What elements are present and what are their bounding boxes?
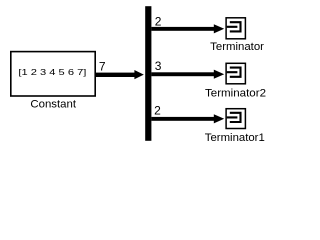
svg-text:Constant: Constant [30,99,76,111]
terminator T1 icon [227,22,241,31]
arrowhead bottom [214,114,224,123]
svg-text:3: 3 [155,59,162,73]
arrowhead into Demux [134,70,143,79]
svg-text:7: 7 [99,60,106,74]
terminator T3 icon [227,113,241,122]
terminator T2 icon [227,68,241,77]
terminator T2 box [226,63,245,84]
svg-text:Terminator: Terminator [210,41,264,53]
svg-text:Terminator1: Terminator1 [205,132,265,144]
terminator block T1 box [226,18,245,39]
wire to Terminator (top) [151,27,214,31]
terminator T3 box [226,109,245,129]
wire to Terminator1 (bottom) [151,117,214,121]
svg-text:2: 2 [154,104,161,118]
demux bar [145,6,151,141]
svg-text:2: 2 [155,15,162,29]
svg-text:Terminator2: Terminator2 [205,88,266,100]
svg-text:[1 2 3 4 5 6 7]: [1 2 3 4 5 6 7] [18,67,86,77]
wire to Terminator2 (middle) [151,72,214,76]
constant block C1 body [11,52,95,96]
arrowhead middle [214,70,224,79]
arrowhead top [214,24,224,33]
wire from Constant to Demux [95,73,135,77]
